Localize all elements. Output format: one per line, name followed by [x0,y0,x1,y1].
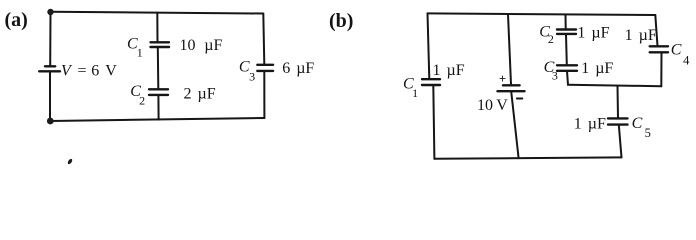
capacitor C3 plates (a) [257,65,273,71]
svg-text:C3: C3 [239,59,255,84]
wire: circuit (b) bottom edge [434,157,621,158]
wire: circuit (a) right edge upper [263,14,264,65]
wire: battery branch upper (b) [508,14,511,84]
svg-text:+: + [499,72,506,86]
svg-text:C2: C2 [539,24,554,47]
svg-text:1 µF: 1 µF [577,25,609,42]
battery V1 long plate (a) [39,70,60,72]
svg-text:6 µF: 6 µF [282,60,314,77]
node: bottom-left junction dot (a) [47,118,54,125]
capacitor C5 plates (b) [608,118,628,124]
capacitor C2 plates (b) [557,30,576,34]
wire: circuit (a) left edge upper [49,12,51,66]
wire: circuit (b) left edge upper [428,13,430,79]
wire: C2/C3 branch lower (b) [567,71,568,85]
wire: circuit (b) left edge lower [433,85,434,159]
battery 10V long plate (b) [498,90,525,92]
wire: circuit (a) middle branch upper [156,13,158,42]
svg-text:1 µF: 1 µF [433,62,465,79]
svg-text:C1: C1 [403,76,418,100]
svg-text:10V: 10V [477,97,508,114]
svg-text:(a): (a) [5,9,28,31]
stray comma mark below circuit (a) [67,158,73,165]
capacitor C1 plates (a) [151,42,170,47]
wire: right edge upper / C4 branch (b) [655,15,657,46]
svg-text:C1: C1 [127,36,143,60]
capacitor C1 plates (b) [422,79,440,85]
capacitor C2 plates (a) [149,89,168,95]
battery 10V short plate (b) [503,84,520,86]
node: top-left junction dot (a) [47,9,53,15]
svg-text:C5: C5 [632,115,651,140]
wire: circuit (a) right edge lower [263,71,265,118]
capacitor C4 plates (b) [650,46,668,52]
wire: circuit (a) middle branch mid [157,47,160,89]
svg-text:C3: C3 [544,59,558,83]
wire: C2/C3 branch mid (b) [565,34,568,65]
wire: circuit (a) left edge lower [49,71,51,121]
wire: C2/C3 branch upper (b) [565,15,567,30]
svg-text:1 µF: 1 µF [625,27,657,44]
wire: circuit (a) bottom edge [50,118,264,121]
battery V1 short plate (a) [45,65,55,67]
svg-text:C4: C4 [671,41,690,67]
wire: inner loop bottom (b) [568,85,661,86]
wire: circuit (b) top edge [428,13,656,15]
svg-text:V=6V: V=6V [61,63,117,80]
wire: battery branch lower (b) [511,91,518,158]
svg-text:10µF: 10µF [180,37,223,54]
svg-text:2 µF: 2 µF [184,86,216,103]
wire: C5 branch upper (b) [617,86,620,118]
wire: circuit (a) middle branch lower [157,95,159,120]
wire: C5 branch lower (b) [619,125,622,158]
wire: right edge lower (b) [660,53,662,87]
svg-text:1 µF: 1 µF [574,116,606,133]
svg-text:1 µF: 1 µF [581,60,613,77]
capacitor C3 plates (b) [557,65,577,71]
svg-text:C2: C2 [130,83,145,107]
wire: circuit (a) top edge [51,12,264,14]
svg-text:(b): (b) [329,10,353,32]
minus sign of battery (b) [517,98,522,100]
